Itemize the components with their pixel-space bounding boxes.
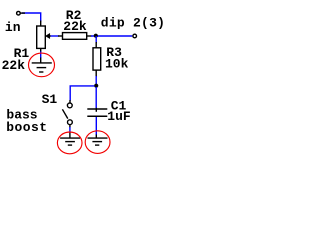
ground 3 xyxy=(88,135,108,146)
terminal dip 2 (3) xyxy=(133,34,137,38)
resistor R3 body xyxy=(93,48,101,70)
svg-text:22k: 22k xyxy=(63,19,87,34)
node: junction R3/S1/C1 xyxy=(94,84,98,88)
node: junction R2/R3 xyxy=(94,34,98,38)
switch S1 top contact xyxy=(67,103,72,108)
resistor R2 right lead xyxy=(87,35,92,37)
wire: pot to ground 1 xyxy=(40,52,42,59)
svg-text:boost: boost xyxy=(6,120,47,135)
svg-text:10k: 10k xyxy=(105,56,129,71)
resistor R1 wiper arrow xyxy=(46,34,50,38)
capacitor C1 top plate xyxy=(87,108,107,110)
switch bottom lead xyxy=(69,125,71,128)
capacitor C1 stub xyxy=(95,109,97,112)
wire: input terminal to pot top xyxy=(22,13,41,22)
svg-text:in: in xyxy=(5,20,21,35)
wire: switch to ground 2 xyxy=(69,127,71,132)
input lead xyxy=(20,12,25,14)
switch top lead xyxy=(69,100,71,103)
resistor R3 bottom lead xyxy=(95,70,97,77)
wire: wiper to R2 xyxy=(51,35,59,37)
wire: R3 to bottom node xyxy=(95,76,97,85)
capacitor C1 top lead xyxy=(95,108,97,109)
svg-text:S1: S1 xyxy=(42,92,58,107)
svg-text:1uF: 1uF xyxy=(107,109,131,124)
resistor R1 potentiometer body xyxy=(37,26,46,48)
pot bottom lead xyxy=(40,48,42,52)
ground 2 xyxy=(60,132,80,146)
capacitor C1 bottom plate xyxy=(87,115,107,117)
resistor R3 top lead xyxy=(95,42,97,49)
terminal in xyxy=(17,11,21,15)
wire: node down to R3 xyxy=(95,36,97,43)
ground 1 xyxy=(32,58,52,73)
switch S1 lever xyxy=(62,109,67,118)
svg-text:dip 2(3): dip 2(3) xyxy=(101,16,164,31)
wire: R2 to output terminal xyxy=(91,35,132,37)
pot top lead xyxy=(40,21,42,27)
resistor R2 left lead xyxy=(58,35,63,37)
svg-text:22k: 22k xyxy=(2,58,26,73)
wire: node left to switch corner and down xyxy=(70,86,94,101)
wire: C1 to ground 3 xyxy=(95,117,97,135)
wire: node down to C1 xyxy=(95,87,97,108)
switch S1 bottom contact xyxy=(68,120,73,125)
resistor R2 body xyxy=(63,33,87,40)
